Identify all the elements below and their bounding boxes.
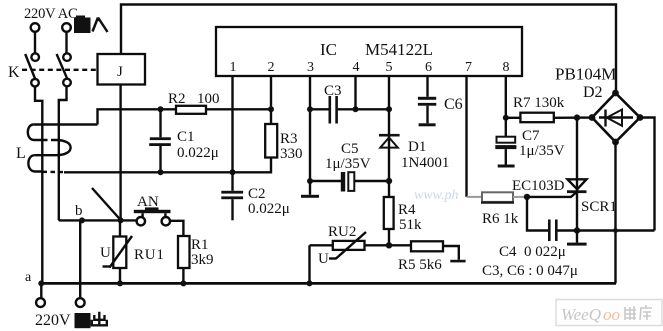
svg-text:R5 5k6: R5 5k6 xyxy=(398,257,442,273)
resistor R2 xyxy=(168,91,220,114)
varistor RU2 xyxy=(318,224,366,267)
wire switch2 down with jog to right mains line xyxy=(59,86,67,124)
pushbutton AN xyxy=(134,194,171,225)
svg-text:1μ/35V: 1μ/35V xyxy=(325,156,371,172)
junction pin5 / C3 xyxy=(386,106,392,112)
watermark WeeQoo box xyxy=(556,300,662,326)
diode D1 1N4001 xyxy=(379,134,449,171)
svg-text:C4 0 022μ: C4 0 022μ xyxy=(499,244,566,260)
svg-text:100: 100 xyxy=(197,91,220,107)
wire pin 2 xyxy=(270,76,272,109)
wire output-2 drop from node b xyxy=(79,220,81,298)
wire AC1 terminal to switch xyxy=(34,32,36,53)
resistor R3 xyxy=(265,109,302,162)
wire AN to R1 xyxy=(170,221,183,236)
wire RU2/R4/R5 rail xyxy=(310,244,412,246)
wire switch1 down with jog to left mains line xyxy=(35,87,42,125)
svg-text:R7 130k: R7 130k xyxy=(513,95,565,111)
svg-text:D1: D1 xyxy=(408,139,426,155)
inductor L right bump xyxy=(35,140,71,155)
wire pin 8 xyxy=(505,76,507,118)
wire bridge bottom corner down to bottom rail xyxy=(614,142,616,283)
svg-text:AN: AN xyxy=(137,194,159,210)
svg-text:J: J xyxy=(117,64,123,80)
svg-text:D2: D2 xyxy=(583,84,603,101)
svg-text:4: 4 xyxy=(353,60,360,75)
capacitor C7 electrolytic xyxy=(495,118,564,168)
wire relay J coil down to node b xyxy=(119,85,121,221)
relay J xyxy=(98,54,146,85)
node b xyxy=(75,203,85,223)
capacitor C4 xyxy=(482,220,578,280)
junction C1 / R2 rail xyxy=(158,106,164,112)
ground stub under SCR xyxy=(567,231,587,246)
svg-text:b: b xyxy=(75,203,83,219)
wire node a bottom rail xyxy=(41,282,616,285)
junction RU1 / bottom rail xyxy=(117,280,123,286)
wire R2 rail: corner to pin2 xyxy=(98,109,272,124)
terminal AC-1 top xyxy=(31,23,40,32)
svg-text:WeeQ: WeeQ xyxy=(561,305,601,324)
wire left mains line through L down to node a xyxy=(41,125,42,299)
svg-text:RU2: RU2 xyxy=(328,224,356,240)
svg-text:2: 2 xyxy=(268,60,275,75)
wire top rail from relay J to bridge xyxy=(121,5,616,94)
junction pin8 / R7 / C7 xyxy=(503,115,509,121)
terminal output-1 xyxy=(36,298,45,307)
wire C4 leg from R6 junction xyxy=(527,197,549,231)
svg-text:1N4001: 1N4001 xyxy=(401,155,449,171)
svg-text:51k: 51k xyxy=(399,217,422,233)
svg-text:IC: IC xyxy=(320,40,337,59)
resistor R4 xyxy=(384,181,422,245)
wire pin 6 xyxy=(426,76,428,97)
svg-text:a: a xyxy=(25,270,32,285)
label input (Chinese 输入) xyxy=(74,16,108,34)
switch K pole 1 xyxy=(25,53,39,86)
svg-text:1: 1 xyxy=(230,60,237,75)
inductor L curl 2 xyxy=(28,155,41,171)
svg-text:M54122L: M54122L xyxy=(365,40,433,59)
svg-text:K: K xyxy=(8,64,20,81)
svg-text:C3, C6 : 0 047μ: C3, C6 : 0 047μ xyxy=(482,263,578,279)
inductor L dashed crossing 2 xyxy=(43,171,65,174)
varistor RU1 xyxy=(100,236,165,268)
wire RU2 left leg down to bottom rail xyxy=(308,245,310,283)
svg-text:330: 330 xyxy=(280,146,303,162)
junction RU2 leg / bottom rail xyxy=(307,280,313,286)
resistor R5 xyxy=(398,241,466,273)
junction pin1 / mid rail xyxy=(230,169,236,175)
capacitor C6 xyxy=(418,96,463,126)
wire right mains line through L down to node b corner xyxy=(59,125,60,221)
svg-text:PB104M: PB104M xyxy=(555,65,616,84)
junction R7 / bridge / SCR anode xyxy=(574,114,580,120)
svg-text:8: 8 xyxy=(503,60,510,75)
junction R4 / R5 rail xyxy=(386,242,392,248)
wire R1 bottom lead xyxy=(182,268,184,283)
svg-text:C6: C6 xyxy=(444,96,463,113)
wire bridge right corner to right drop xyxy=(640,118,655,231)
wire pin 1 xyxy=(231,76,233,172)
junction R1 / bottom rail xyxy=(180,280,186,286)
resistor R7 xyxy=(506,95,592,122)
svg-text:oo: oo xyxy=(603,305,620,324)
svg-text:1μ/35V: 1μ/35V xyxy=(519,143,565,159)
inductor L winding top wire xyxy=(34,123,98,125)
junction pin4 / C3 xyxy=(353,106,359,112)
wire RU1 bottom lead xyxy=(119,268,121,283)
junction pin3 / C5 xyxy=(307,178,313,184)
label L xyxy=(16,145,26,162)
svg-text:C5: C5 xyxy=(341,141,359,157)
svg-text:220V: 220V xyxy=(35,312,71,329)
svg-text:R3: R3 xyxy=(280,131,298,147)
wire mid rail from L to R3 xyxy=(64,158,271,173)
svg-text:R6 1k: R6 1k xyxy=(482,211,519,227)
svg-text:U: U xyxy=(100,245,111,261)
svg-text:3: 3 xyxy=(307,60,314,75)
svg-text:C1: C1 xyxy=(177,129,195,145)
svg-text:3k9: 3k9 xyxy=(191,252,214,268)
node a xyxy=(25,270,44,286)
capacitor C5 electrolytic xyxy=(310,141,389,192)
wire pin 5 xyxy=(388,76,390,181)
wire pin 7 xyxy=(465,76,467,197)
wire pin 3 xyxy=(309,76,311,181)
wire AC2 terminal to switch xyxy=(65,32,67,53)
wire RU1 top lead xyxy=(119,220,121,236)
svg-text:RU1: RU1 xyxy=(134,247,165,263)
svg-text:R1: R1 xyxy=(191,237,209,253)
svg-text:C7: C7 xyxy=(522,128,540,144)
junction C1 / mid rail xyxy=(158,169,164,175)
capacitor C3 xyxy=(324,83,342,124)
label K xyxy=(8,64,20,81)
node junction J / RU1 xyxy=(118,217,124,223)
svg-text:5: 5 xyxy=(386,60,393,75)
terminal output-2 xyxy=(76,298,85,307)
svg-text:C2: C2 xyxy=(248,186,266,202)
svg-text:220V AC: 220V AC xyxy=(24,6,78,22)
svg-text:SCR1: SCR1 xyxy=(581,199,617,215)
wire pin 4 xyxy=(354,76,356,109)
svg-text:R2: R2 xyxy=(168,91,186,107)
svg-text:EC103D: EC103D xyxy=(512,178,565,194)
relay contact blade xyxy=(92,188,121,220)
svg-text:6: 6 xyxy=(425,60,432,75)
junction SCR cathode / C4 rail xyxy=(574,227,580,233)
svg-text:U: U xyxy=(318,251,329,267)
wire dashed link K to relay J xyxy=(22,69,98,71)
junction R6 / gate / C4 xyxy=(524,194,530,200)
capacitor C1 xyxy=(149,109,219,172)
label 220V AC input xyxy=(24,6,78,22)
svg-text:R4: R4 xyxy=(398,202,416,218)
ground stub under pin3 xyxy=(301,181,319,198)
svg-text:www.ph: www.ph xyxy=(414,188,458,203)
junction pin3 / C3 xyxy=(307,106,313,112)
switch K pole 2 xyxy=(57,53,71,86)
inductor L dashed crossing 1 xyxy=(43,139,56,141)
IC U1 M54122L xyxy=(216,27,522,76)
svg-text:7: 7 xyxy=(465,60,472,75)
junction bridge line / C4 rail xyxy=(613,228,618,233)
wire C3 rail pin3 to pin5 xyxy=(310,108,389,110)
wire SCR cathode to right drop xyxy=(577,229,655,231)
label 220V output xyxy=(35,312,71,329)
svg-text:L: L xyxy=(16,145,26,162)
svg-text:0.022μ: 0.022μ xyxy=(177,145,219,161)
svg-text:C3: C3 xyxy=(324,83,342,99)
junction pin2 / R2 / R3 xyxy=(268,106,274,112)
junction pin5 / C5 / R4 xyxy=(386,178,392,184)
capacitor C2 xyxy=(221,172,289,220)
bridge rectifier D2 PB104M xyxy=(555,65,643,146)
resistor R1 xyxy=(178,236,214,268)
inductor L curl 1 xyxy=(28,125,42,141)
thyristor SCR1 EC103D xyxy=(512,118,617,231)
resistor R6 xyxy=(467,192,528,227)
label output (Chinese 输出) xyxy=(75,312,107,328)
svg-text:0.022μ: 0.022μ xyxy=(248,201,290,217)
terminal AC-2 top xyxy=(62,23,71,32)
wire node b horizontal xyxy=(59,219,137,221)
